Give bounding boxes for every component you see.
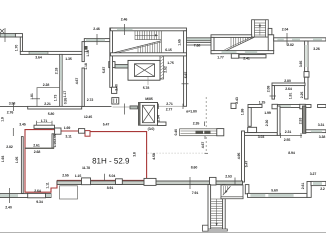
svg-text:1.99: 1.99 [241, 109, 245, 116]
svg-text:2.53: 2.53 [299, 118, 303, 125]
svg-text:2.64: 2.64 [34, 189, 41, 193]
flight mid line + arrow [135, 34, 158, 36]
svg-text:1.18: 1.18 [84, 63, 88, 70]
svg-text:2.52: 2.52 [163, 66, 167, 73]
svg-text:2.2: 2.2 [320, 187, 325, 191]
svg-text:3.8: 3.8 [133, 152, 137, 157]
vertical window wall x60 [60, 54, 62, 108]
right stairwell main block [211, 35, 252, 38]
upper flight treads [135, 31, 162, 40]
svg-text:1.73: 1.73 [54, 95, 58, 102]
small room box left [37, 88, 60, 108]
svg-text:3.03: 3.03 [258, 135, 265, 139]
svg-text:6.15: 6.15 [165, 48, 172, 52]
svg-text:3.38: 3.38 [319, 135, 326, 139]
window box on red top 1 [55, 128, 61, 134]
lower flight treads [138, 42, 160, 53]
svg-text:5.87: 5.87 [102, 67, 106, 74]
svg-text:(3.0): (3.0) [148, 127, 155, 131]
stair block bottom wall [111, 53, 187, 56]
svg-text:1.11: 1.11 [46, 182, 50, 188]
svg-text:2.46: 2.46 [93, 27, 100, 31]
svg-text:2.54: 2.54 [156, 115, 160, 122]
corridor right of stairwell [274, 38, 326, 41]
svg-text:1.10: 1.10 [53, 141, 57, 148]
svg-text:1.15: 1.15 [75, 174, 82, 178]
svg-text:7.68: 7.68 [194, 43, 201, 47]
wall y131 right edge [306, 130, 326, 133]
bottom wall right wing y105 [248, 105, 262, 108]
svg-text:1.9: 1.9 [1, 117, 5, 122]
tick in room [33, 98, 41, 100]
tick on right wall [182, 83, 189, 85]
partition wall in red room [52, 134, 54, 148]
bottom wall right y195 [245, 185, 249, 194]
window in wall y52 [29, 52, 48, 54]
svg-text:2.61: 2.61 [33, 143, 40, 147]
svg-text:2.68: 2.68 [34, 150, 41, 154]
window box 2 [116, 179, 123, 185]
svg-text:3.11: 3.11 [65, 135, 71, 139]
red pier box [85, 131, 90, 137]
stair block top wall [111, 28, 187, 31]
svg-text:3.58: 3.58 [9, 102, 16, 106]
bottom corridor wall right part [147, 181, 243, 185]
corner wall top-left [15, 34, 22, 37]
svg-text:5.78: 5.78 [143, 86, 150, 90]
wall to elevator 1 [115, 65, 128, 68]
svg-text:2.35: 2.35 [193, 122, 200, 126]
landing divider [160, 31, 162, 53]
svg-text:2.71: 2.71 [166, 102, 173, 106]
svg-text:2.40: 2.40 [115, 84, 119, 91]
svg-text:7.91: 7.91 [192, 191, 199, 195]
svg-text:1.17: 1.17 [63, 91, 67, 98]
right rooms wall y84 [272, 83, 305, 86]
svg-text:2.31: 2.31 [285, 130, 292, 134]
lower flight diagonal [113, 41, 161, 53]
svg-text:3.31: 3.31 [318, 123, 325, 127]
wall x306 down [305, 41, 308, 72]
bottom stair shaft [208, 185, 211, 231]
svg-text:5.47: 5.47 [103, 122, 110, 126]
window wall y39 middle [84, 39, 110, 42]
svg-text:8.94: 8.94 [288, 151, 295, 155]
svg-text:в=1.80: в=1.80 [186, 110, 197, 114]
stair block right wall [184, 31, 187, 107]
svg-text:2.55: 2.55 [62, 174, 69, 178]
svg-text:5.97: 5.97 [184, 72, 188, 79]
svg-text:2.41: 2.41 [243, 57, 250, 61]
svg-text:3.45: 3.45 [19, 122, 26, 126]
svg-text:1.65: 1.65 [178, 39, 182, 46]
svg-text:2.08: 2.08 [267, 86, 271, 93]
svg-text:2.46: 2.46 [121, 18, 128, 22]
svg-text:2.82: 2.82 [6, 145, 13, 149]
svg-text:5.04: 5.04 [109, 174, 116, 178]
box on corridor above shaft [210, 177, 217, 185]
wall y52 left wing [20, 51, 84, 54]
svg-text:1.77: 1.77 [217, 56, 224, 60]
right stair diagonal [226, 37, 254, 51]
wall stub x85 y47 [85, 46, 88, 50]
svg-text:2.04: 2.04 [282, 28, 289, 32]
window box 3 [144, 178, 156, 185]
svg-text:1.93: 1.93 [1, 156, 5, 163]
stair block left wall [110, 28, 113, 87]
svg-text:2.05: 2.05 [53, 134, 57, 141]
svg-text:8.60: 8.60 [191, 165, 198, 169]
wall left of elevator2 [130, 106, 138, 109]
red room outline [25, 130, 147, 193]
svg-text:3.65: 3.65 [299, 61, 303, 68]
svg-text:1.99: 1.99 [264, 111, 271, 115]
dimension tick top-left [4, 28, 6, 42]
bottom stair right flight [221, 185, 243, 199]
svg-text:12.45: 12.45 [84, 115, 92, 119]
svg-text:2.53: 2.53 [225, 175, 232, 179]
right dark wall x304 [303, 106, 306, 133]
svg-text:11.78: 11.78 [82, 166, 90, 170]
svg-text:3.27: 3.27 [310, 172, 317, 176]
left small room right wing [248, 108, 251, 127]
svg-text:2.18: 2.18 [54, 68, 58, 75]
svg-text:2.40: 2.40 [5, 205, 12, 209]
long wall y107 [0, 105, 112, 107]
elevator 2 [139, 103, 158, 126]
svg-text:4.67: 4.67 [201, 142, 205, 149]
step up right [307, 182, 311, 198]
black wall left of red room [21, 137, 23, 194]
svg-text:2.61: 2.61 [301, 183, 305, 190]
svg-text:1.70: 1.70 [15, 45, 19, 52]
lower wall right of block [239, 55, 266, 58]
elevator 1 [128, 60, 160, 80]
svg-text:2.77: 2.77 [166, 108, 173, 112]
svg-text:81Н - 52.9: 81Н - 52.9 [92, 156, 130, 165]
corridor to right stairwell [187, 38, 212, 41]
svg-text:1.75: 1.75 [167, 61, 174, 65]
svg-text:2.43: 2.43 [235, 97, 239, 104]
dim 5.78 [147, 77, 149, 85]
svg-text:2.76: 2.76 [7, 110, 14, 114]
vertical wall x20 [20, 37, 22, 52]
big room left wall [242, 131, 245, 182]
thin wall y135 [280, 135, 302, 137]
small box room bottom-left [60, 186, 78, 199]
window box 1 [82, 178, 91, 185]
svg-text:2.72: 2.72 [87, 98, 94, 102]
svg-text:1.35: 1.35 [65, 57, 72, 61]
wall right of elevator2 [158, 122, 167, 126]
svg-text:1.69: 1.69 [64, 126, 71, 130]
svg-text:2.28: 2.28 [43, 83, 50, 87]
svg-text:5.80: 5.80 [48, 112, 55, 116]
svg-text:9.34: 9.34 [36, 200, 43, 204]
door pier 1 [112, 87, 117, 93]
svg-text:5.60: 5.60 [271, 189, 278, 193]
svg-text:0.55: 0.55 [64, 98, 68, 105]
svg-text:2.80: 2.80 [284, 79, 291, 83]
window box on red top 2 [79, 129, 85, 134]
svg-text:8.91: 8.91 [107, 186, 114, 190]
top-left window wall [0, 34, 16, 37]
svg-text:3.26: 3.26 [313, 47, 320, 51]
protrusion box [231, 54, 238, 59]
svg-text:3.64: 3.64 [35, 55, 42, 59]
bottom-left exterior wall [0, 194, 51, 198]
baseline bottom [0, 232, 326, 234]
pier box on left wall [109, 62, 115, 68]
svg-text:2.21: 2.21 [44, 102, 51, 106]
right stairwell tower [252, 20, 269, 37]
center wall x278 [277, 106, 280, 135]
svg-text:0.40: 0.40 [174, 129, 178, 136]
svg-text:1.05: 1.05 [15, 157, 19, 164]
svg-text:2.30: 2.30 [265, 120, 269, 127]
dashed void line [205, 97, 207, 153]
svg-text:1.71: 1.71 [41, 119, 48, 123]
bottom corridor wall left part [57, 181, 147, 185]
wall above red room [34, 125, 55, 128]
svg-text:М/85: М/85 [145, 97, 153, 101]
dim line left lobby [113, 106, 138, 108]
dim line right lobby [158, 105, 184, 107]
svg-text:1.25: 1.25 [259, 101, 266, 105]
middle rooms left wall x87 [82, 42, 84, 62]
svg-text:2.55: 2.55 [284, 138, 291, 142]
tick x13.5 [13, 103, 15, 111]
svg-text:4.95: 4.95 [237, 153, 241, 160]
svg-text:1.91: 1.91 [289, 93, 293, 100]
svg-text:4.67: 4.67 [75, 78, 79, 85]
svg-text:1.81: 1.81 [30, 93, 34, 100]
svg-text:2.64: 2.64 [285, 87, 292, 91]
svg-text:1.18: 1.18 [86, 50, 90, 57]
door pier 2 [112, 98, 119, 104]
svg-text:2.25: 2.25 [300, 92, 304, 99]
small column square [231, 103, 236, 108]
hatched wall strip right of elevator [160, 56, 164, 79]
tick [12, 128, 14, 136]
svg-text:2.82: 2.82 [287, 43, 294, 47]
svg-text:4.58: 4.58 [152, 153, 156, 160]
svg-text:5.47: 5.47 [244, 161, 248, 168]
